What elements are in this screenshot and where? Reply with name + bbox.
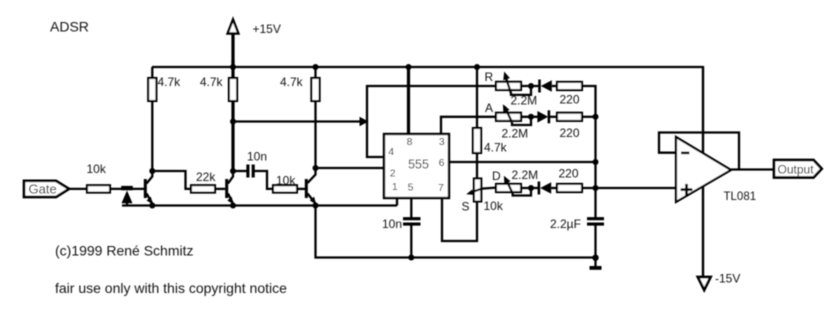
wire bottom ground line: [316, 206, 596, 258]
wire R7 to sustain pot: [476, 153, 478, 179]
wire 22k to Q2 base: [215, 188, 225, 190]
node D pot wiper tie: [528, 185, 534, 191]
svg-text:4: 4: [388, 146, 394, 158]
wire D2 to 220: [552, 85, 557, 87]
potentiometer D 2.2M: [492, 168, 538, 196]
wire +15V stem: [231, 34, 234, 67]
wire 220 to envelope corner: [582, 86, 596, 117]
wire D4 to 220: [551, 187, 557, 189]
wire VCC thick branch down: [231, 60, 234, 171]
wire 555 pin 8 to rail: [407, 67, 410, 134]
svg-text:10k: 10k: [484, 199, 504, 213]
svg-text:2.2µF: 2.2µF: [550, 217, 581, 231]
svg-text:Output: Output: [778, 162, 815, 176]
Output tag: [774, 160, 822, 178]
resistor R10 220: [557, 167, 582, 193]
svg-text:555: 555: [408, 157, 429, 171]
svg-text:TL081: TL081: [724, 191, 757, 203]
capacitor C3 2.2uF: [550, 217, 604, 231]
-15V supply arrow: [698, 272, 741, 291]
node Q2 emitter: [230, 203, 236, 209]
svg-text:D: D: [492, 169, 501, 183]
svg-text:3: 3: [439, 136, 445, 148]
node D row / envelope: [593, 185, 599, 191]
wire R6 to Q3 base: [297, 188, 305, 190]
svg-text:2.2M: 2.2M: [512, 168, 539, 182]
svg-text:A: A: [485, 101, 493, 115]
node Q3 collector / 555 pin2: [313, 165, 319, 171]
svg-text:ADSR: ADSR: [50, 19, 89, 35]
wire C3 to ground node: [594, 224, 596, 258]
node C2 ground: [408, 255, 414, 261]
svg-text:10k: 10k: [276, 173, 296, 187]
wire emitter ground rail: [122, 204, 397, 206]
wire 555 pin 1 to ground rail: [396, 198, 398, 206]
wire A pot to diode D3: [521, 116, 538, 118]
node pin6 / envelope: [593, 159, 599, 165]
wire 220 to op-amp + input: [582, 187, 676, 189]
node rail / R3 top: [313, 64, 319, 70]
diode D1 gate clamp: [121, 186, 133, 206]
svg-text:S: S: [462, 200, 470, 214]
capacitor C1 10n: [247, 150, 267, 178]
resistor R8 220: [557, 82, 582, 107]
svg-text:2.2M: 2.2M: [511, 94, 538, 108]
ground symbol: [590, 258, 602, 270]
wire 555 pin 5 to C2: [410, 198, 412, 219]
svg-text:2.2M: 2.2M: [502, 127, 529, 141]
wire D pot to diode D4: [521, 187, 540, 189]
node A pot wiper tie: [528, 114, 534, 120]
resistor R2 4.7k: [200, 75, 237, 101]
wire Q3 collector to 555 pin 2: [316, 167, 385, 169]
svg-text:fair use only with this copyri: fair use only with this copyright notice: [55, 280, 287, 296]
resistor R4 10k: [87, 162, 111, 193]
svg-text:(c)1999 René Schmitz: (c)1999 René Schmitz: [55, 243, 194, 259]
capacitor C2 10n: [382, 217, 421, 231]
wire 220 to envelope node: [582, 116, 596, 118]
resistor R6 10k: [273, 173, 297, 192]
svg-text:+15V: +15V: [253, 22, 281, 36]
svg-text:Gate: Gate: [29, 182, 57, 197]
wire op-amp output: [731, 168, 774, 170]
wire control line Q2 collector branch to pin4 net: [233, 120, 363, 122]
wire R4 to Q1 base: [110, 188, 144, 190]
wire 555 pin 7 to sustain pot bottom: [442, 198, 477, 241]
junction arrow into pin4 net: [360, 117, 369, 126]
potentiometer A 2.2M: [485, 101, 531, 141]
node rail / VCC stem: [230, 64, 236, 70]
potentiometer R 2.2M: [485, 70, 538, 108]
transistor Q1: [144, 171, 153, 206]
svg-text:R: R: [485, 70, 494, 84]
svg-text:6: 6: [439, 157, 445, 169]
resistor R7 4.7k: [473, 128, 508, 155]
svg-text:7: 7: [438, 182, 444, 194]
node ground junction: [592, 255, 598, 261]
wire Gate to R4: [69, 188, 87, 190]
+15V supply arrow: [228, 20, 281, 37]
node rail / 555 pin 8: [406, 64, 412, 70]
potentiometer S 10k body: [462, 179, 504, 214]
wire top +15V rail: [152, 66, 703, 68]
wire 555 pin 4 net: [367, 86, 496, 157]
svg-text:4.7k: 4.7k: [280, 75, 304, 89]
wire sustain divider from rail: [476, 67, 478, 129]
svg-text:1: 1: [392, 181, 398, 193]
resistor R1 4.7k: [148, 75, 181, 101]
wire Q2 collector to C1: [233, 170, 247, 172]
op-amp U2 TL081: [676, 137, 756, 203]
svg-text:4.7k: 4.7k: [158, 75, 182, 89]
wire Q1 collector to 22k: [152, 171, 191, 189]
diode D4: [538, 182, 552, 195]
node Q2 collector / C1: [230, 168, 236, 174]
svg-text:5: 5: [408, 181, 414, 193]
svg-text:220: 220: [559, 93, 579, 107]
svg-text:4.7k: 4.7k: [484, 141, 508, 155]
wire R1 bottom to Q1 collector node: [151, 101, 153, 171]
transistor Q3: [305, 168, 316, 206]
svg-text:10n: 10n: [247, 150, 267, 164]
resistor R9 220: [557, 113, 582, 140]
wire envelope node vertical: [594, 117, 596, 219]
wire 555 pin 3 to attack pot: [441, 117, 496, 134]
wire rail to R1: [151, 67, 153, 79]
svg-text:-15V: -15V: [715, 272, 740, 286]
wire R pot to diode D2: [521, 85, 540, 87]
wire D3 to 220: [550, 116, 557, 118]
wiper S arrow: [466, 188, 496, 195]
node Q3 emitter / bottom branch: [313, 203, 319, 209]
svg-text:220: 220: [558, 167, 578, 181]
node A row / envelope: [593, 114, 599, 120]
Gate input tag: [24, 181, 69, 197]
wire C1 to R6: [254, 171, 273, 189]
svg-text:2: 2: [390, 168, 396, 180]
IC U1 555 timer: [384, 134, 449, 198]
svg-text:10n: 10n: [382, 217, 402, 231]
diode D3: [537, 110, 550, 123]
wire feedback loop: [659, 133, 739, 171]
wire C2 to bottom ground line: [410, 224, 412, 257]
node rail / sustain divider: [474, 64, 480, 70]
node Q1 collector: [149, 168, 155, 174]
node Q1 emitter: [149, 203, 155, 209]
diode D2: [538, 80, 552, 93]
wire R3 bottom to Q3 collector node: [314, 101, 316, 168]
svg-text:22k: 22k: [196, 170, 216, 184]
node R pot wiper tie: [528, 83, 534, 89]
wire rail to R3: [314, 67, 316, 79]
svg-text:8: 8: [407, 136, 413, 148]
svg-text:4.7k: 4.7k: [200, 75, 224, 89]
resistor R3 4.7k: [280, 75, 320, 101]
resistor R5 22k: [191, 170, 216, 193]
node control branch on VCC stem: [230, 119, 236, 125]
wire 555 pin 6 to envelope node: [449, 161, 596, 163]
transistor Q2: [225, 171, 233, 206]
svg-text:220: 220: [559, 126, 579, 140]
wire op-amp supply -15V line: [702, 66, 704, 278]
svg-text:10k: 10k: [87, 162, 107, 176]
